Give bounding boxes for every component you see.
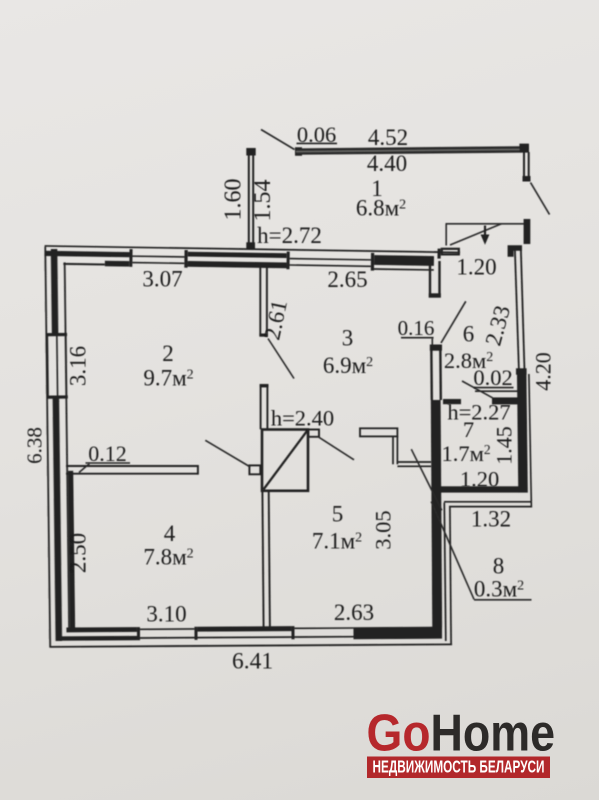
entrance steps right wall bar — [524, 219, 531, 244]
wire: porch leader line to 0.06 — [261, 130, 295, 150]
svg-text:6.38: 6.38 — [23, 427, 47, 464]
svg-text:НЕДВИЖИМОСТЬ БЕЛАРУСИ: НЕДВИЖИМОСТЬ БЕЛАРУСИ — [373, 757, 545, 777]
annex south outer line 1 — [444, 501, 531, 503]
svg-text:1.60: 1.60 — [221, 179, 247, 221]
left wall window divider upper tick — [47, 333, 67, 336]
bottom wall inner bar west — [66, 627, 137, 632]
entrance steps top edge — [446, 223, 525, 225]
bottom wall mid thin line — [137, 637, 353, 638]
window W4 divider east — [194, 627, 197, 640]
entrance arrow head — [481, 235, 490, 245]
partition 2/4 right cap — [197, 465, 199, 475]
partition rooms 4/5 — [262, 491, 263, 630]
svg-text:4.20: 4.20 — [531, 352, 556, 391]
svg-text:7.1м2: 7.1м2 — [312, 529, 362, 554]
porch left wall — [248, 155, 250, 243]
window W1 (3.07) lines — [132, 255, 184, 258]
svg-text:3.10: 3.10 — [146, 602, 186, 627]
svg-text:6: 6 — [463, 322, 475, 347]
top-right pier tab — [442, 249, 459, 255]
top wall pier east inner line — [374, 268, 434, 271]
annex east wall outer line — [521, 250, 525, 374]
underline 0.06 — [297, 142, 338, 144]
partition rooms 6/7 east bar — [492, 397, 519, 404]
window W1 divider east — [184, 250, 187, 268]
bottom wall pier middle inner bar — [197, 626, 291, 631]
top wall divider tick at porch — [437, 249, 440, 259]
porch right wall — [523, 152, 525, 177]
house bottom wall — [50, 625, 452, 647]
jog line 0.16 — [431, 338, 433, 345]
svg-text:Go: Go — [367, 705, 431, 763]
entrance steps diagonal — [450, 224, 502, 245]
underline 0.02 — [474, 387, 514, 389]
svg-text:2.50: 2.50 — [66, 533, 91, 573]
left wall pier upper — [51, 249, 59, 333]
svg-text:h=2.40: h=2.40 — [271, 406, 334, 431]
partition 2/3 lower top cap — [260, 384, 269, 387]
bottom wall mid bar west — [57, 636, 137, 641]
porch left wall top cap — [246, 148, 255, 156]
GoHome logo — [367, 705, 556, 779]
partition rooms 2/3 lower — [260, 384, 262, 429]
svg-text:3.07: 3.07 — [142, 267, 182, 292]
window W4 divider west — [137, 627, 140, 640]
svg-text:3.05: 3.05 — [371, 510, 396, 549]
left wall window divider lower tick — [48, 395, 68, 398]
house top wall — [44, 242, 460, 272]
svg-text:2.33: 2.33 — [480, 303, 515, 348]
room 7 south wall — [435, 486, 519, 492]
top wall thick bar west — [44, 251, 129, 258]
left wall outer line — [45, 247, 50, 648]
leader 2.61 — [268, 339, 294, 379]
svg-text:h=2.72: h=2.72 — [257, 223, 322, 248]
svg-text:1.54: 1.54 — [250, 180, 276, 222]
annex north-east corner bracket — [508, 245, 522, 256]
leader 0.02 — [462, 381, 493, 398]
svg-text:0.3м2: 0.3м2 — [474, 577, 524, 602]
window W2 divider west — [286, 252, 289, 270]
svg-text:2.61: 2.61 — [259, 298, 292, 343]
top wall pier east solid bar — [374, 255, 434, 266]
top wall inner bar west — [63, 263, 104, 266]
leader room 8 lower — [431, 502, 474, 600]
house right wall upper segment (door jamb) — [429, 261, 431, 298]
dimension tick 0.12 — [79, 464, 90, 473]
partition rooms 2/3 upper — [259, 265, 261, 336]
left wall inner line — [65, 262, 70, 630]
top wall pier middle top bar — [188, 252, 287, 258]
right wall upper segment bottom cap — [429, 293, 441, 297]
room 8 shaft west line — [444, 503, 446, 641]
porch top wall (room 1 north wall) — [295, 144, 529, 156]
window W3 (3.16) lines — [46, 336, 49, 396]
leader from stove right tab — [319, 437, 354, 460]
annex east outer offset line — [529, 374, 532, 508]
window W1 divider west — [129, 249, 132, 267]
porch left wall bottom cap — [246, 242, 255, 249]
svg-text:4.52: 4.52 — [368, 125, 408, 150]
bottom wall outer line — [50, 644, 452, 646]
entrance steps left edge — [445, 224, 447, 246]
door swing room 6 entrance — [441, 301, 466, 343]
window W5 (2.63) lines — [294, 627, 353, 629]
annex east wall lower thick — [517, 375, 528, 493]
entrance arrow shaft — [484, 226, 486, 238]
house right wall middle segment top cap — [430, 345, 442, 351]
vent duct room 5 top bar — [360, 428, 397, 436]
svg-text:5: 5 — [332, 502, 344, 527]
annex east wall block — [516, 368, 527, 374]
svg-text:2.65: 2.65 — [327, 267, 367, 292]
svg-text:0.02: 0.02 — [473, 365, 512, 390]
svg-text:0.16: 0.16 — [398, 316, 435, 340]
vent duct vertical lines — [392, 436, 394, 464]
svg-text:Home: Home — [431, 705, 556, 763]
stove left tab — [249, 465, 260, 474]
label underline 0.3m2 — [474, 599, 532, 601]
svg-text:7.8м2: 7.8м2 — [143, 545, 193, 570]
partition rooms 2/4 (0.12 wall) — [66, 465, 198, 467]
svg-text:9.7м2: 9.7м2 — [143, 366, 193, 391]
bottom wall pier east solid — [353, 627, 442, 640]
svg-text:h=2.27: h=2.27 — [447, 400, 510, 425]
partition rooms 6/7 west bar — [443, 399, 461, 404]
svg-text:1.7м2: 1.7м2 — [441, 441, 490, 466]
room 8 shaft east line — [450, 507, 451, 644]
leader room 8 upper — [411, 449, 442, 510]
svg-text:8: 8 — [493, 554, 505, 579]
top wall outer line — [45, 246, 441, 252]
svg-text:4.40: 4.40 — [367, 151, 407, 176]
left wall inner thick lower — [68, 471, 75, 630]
top wall thin continuation to porch — [434, 251, 460, 253]
svg-text:1.32: 1.32 — [471, 507, 511, 532]
underline 0.12 — [86, 462, 131, 464]
annex east wall inner line — [515, 250, 519, 370]
partition 2/3 bottom cap — [259, 334, 267, 337]
svg-text:4: 4 — [164, 521, 176, 546]
window W2 (2.65) lines — [290, 259, 371, 260]
svg-text:6.9м2: 6.9м2 — [323, 353, 373, 378]
window W2 divider east — [371, 253, 374, 271]
stove body — [262, 430, 308, 491]
underline 0.16 — [401, 337, 434, 339]
top wall pier middle bottom bar — [188, 261, 287, 268]
logo red bar — [367, 757, 550, 779]
svg-text:7: 7 — [463, 417, 474, 442]
svg-text:6.8м2: 6.8м2 — [356, 196, 406, 221]
porch door swing — [531, 183, 550, 215]
svg-text:2.63: 2.63 — [334, 600, 374, 625]
svg-text:1.20: 1.20 — [456, 255, 496, 280]
svg-text:2: 2 — [162, 341, 174, 366]
window W5 divider west — [291, 626, 294, 639]
vent duct horizontal lines — [397, 461, 431, 463]
house left wall — [45, 246, 75, 647]
house right wall lower solid — [431, 400, 442, 628]
porch right wall bottom cap — [523, 176, 531, 182]
leader to stove left tab — [205, 440, 250, 467]
ledge line 0.02 — [475, 390, 518, 392]
window W4 (3.10) lines — [140, 628, 194, 630]
stove diagonal — [264, 431, 308, 490]
svg-text:3: 3 — [342, 326, 354, 351]
left wall pier lower — [53, 398, 62, 641]
svg-text:6.41: 6.41 — [232, 649, 273, 675]
svg-text:1.45: 1.45 — [492, 426, 517, 465]
house right wall middle segment — [430, 345, 433, 401]
stove top-right tab — [308, 430, 319, 437]
svg-text:1.20: 1.20 — [460, 467, 499, 492]
annex south outer line 2 — [449, 506, 532, 508]
svg-text:3.16: 3.16 — [66, 346, 91, 386]
